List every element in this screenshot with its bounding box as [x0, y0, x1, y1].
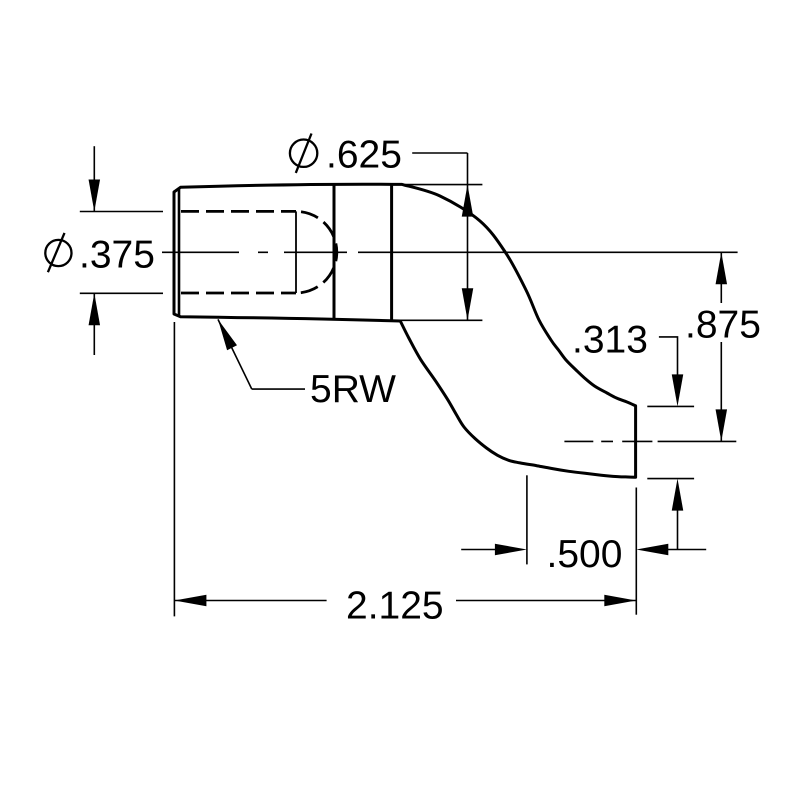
arrowhead dia .375 up	[89, 293, 101, 325]
extension line dia .625 bottom	[398, 319, 483, 321]
lower centerline (dash-dot) at tang end	[564, 440, 652, 442]
bore depth line	[295, 211, 297, 293]
dimension line .875 lower segment	[720, 342, 722, 441]
extension line dia .375 bottom	[80, 292, 163, 294]
arrowhead .875 up	[716, 252, 728, 284]
arrowhead 2.125 left-pointing	[174, 595, 206, 607]
arrowhead .313 down	[672, 374, 684, 406]
left end chamfer inner edge line	[178, 188, 181, 317]
leader from .625 text	[412, 152, 467, 154]
main centerline (dash-dot)	[162, 251, 347, 253]
extension line .313 bottom	[647, 478, 694, 480]
svg-text:.625: .625	[326, 134, 402, 177]
arrowhead .500 left-pointing	[636, 544, 668, 556]
dimension line 2.125 right segment	[456, 600, 636, 602]
5RW leader diagonal	[218, 319, 252, 389]
hidden bore top line (dashed)	[181, 210, 296, 213]
dimension line .500 right segment	[667, 549, 706, 551]
bent leader from .313 text	[659, 337, 678, 376]
hidden bore dome arc (dashed)	[296, 211, 337, 293]
arrowhead dia .375 down	[89, 180, 101, 212]
extension line right (shared by .500 and 2.125)	[635, 488, 637, 615]
hidden bore bottom line (dashed)	[181, 292, 296, 295]
arrowhead .313 up	[672, 479, 684, 511]
part outline (swaged tube body with S-curve tang)	[174, 184, 636, 477]
svg-text:.875: .875	[685, 304, 761, 347]
dimension line 2.125 left segment	[174, 600, 326, 602]
dimension line .500 left segment	[461, 549, 496, 551]
diameter symbol for .375	[45, 233, 71, 272]
arrowhead 2.125 right-pointing	[604, 595, 636, 607]
band line 2 (groove edge)	[390, 184, 393, 320]
svg-text:.500: .500	[547, 533, 623, 576]
5RW leader horizontal	[252, 388, 305, 390]
svg-text:.313: .313	[572, 319, 648, 362]
extension line dia .375 top	[80, 211, 163, 213]
arrowhead 5RW	[218, 319, 237, 350]
diameter symbol for .625	[290, 134, 317, 173]
svg-text:5RW: 5RW	[310, 368, 396, 411]
lower extension line for .875 (bottom reference)	[658, 440, 737, 442]
arrowhead dia .625 up	[462, 185, 474, 217]
extension line 2.125 left	[173, 322, 175, 616]
centerline extension line for .875 (top reference)	[358, 251, 738, 253]
dimension line dia .375 upper segment	[93, 146, 95, 211]
svg-text:.375: .375	[79, 234, 155, 277]
extension line .500 left	[526, 475, 528, 564]
arrowhead dia .625 down	[462, 288, 474, 320]
band line 1 (groove edge)	[333, 185, 336, 319]
dimension line dia .625 vertical	[467, 153, 469, 320]
svg-text:2.125: 2.125	[346, 585, 444, 628]
arrowhead .500 right-pointing	[495, 544, 527, 556]
dimension line .875 upper segment	[720, 252, 722, 303]
extension line .313 top	[647, 405, 694, 407]
extension line dia .625 top	[397, 184, 482, 186]
lower leader .313	[677, 510, 679, 550]
arrowhead .875 down	[716, 409, 728, 441]
dimension line dia .375 lower segment	[93, 293, 95, 355]
